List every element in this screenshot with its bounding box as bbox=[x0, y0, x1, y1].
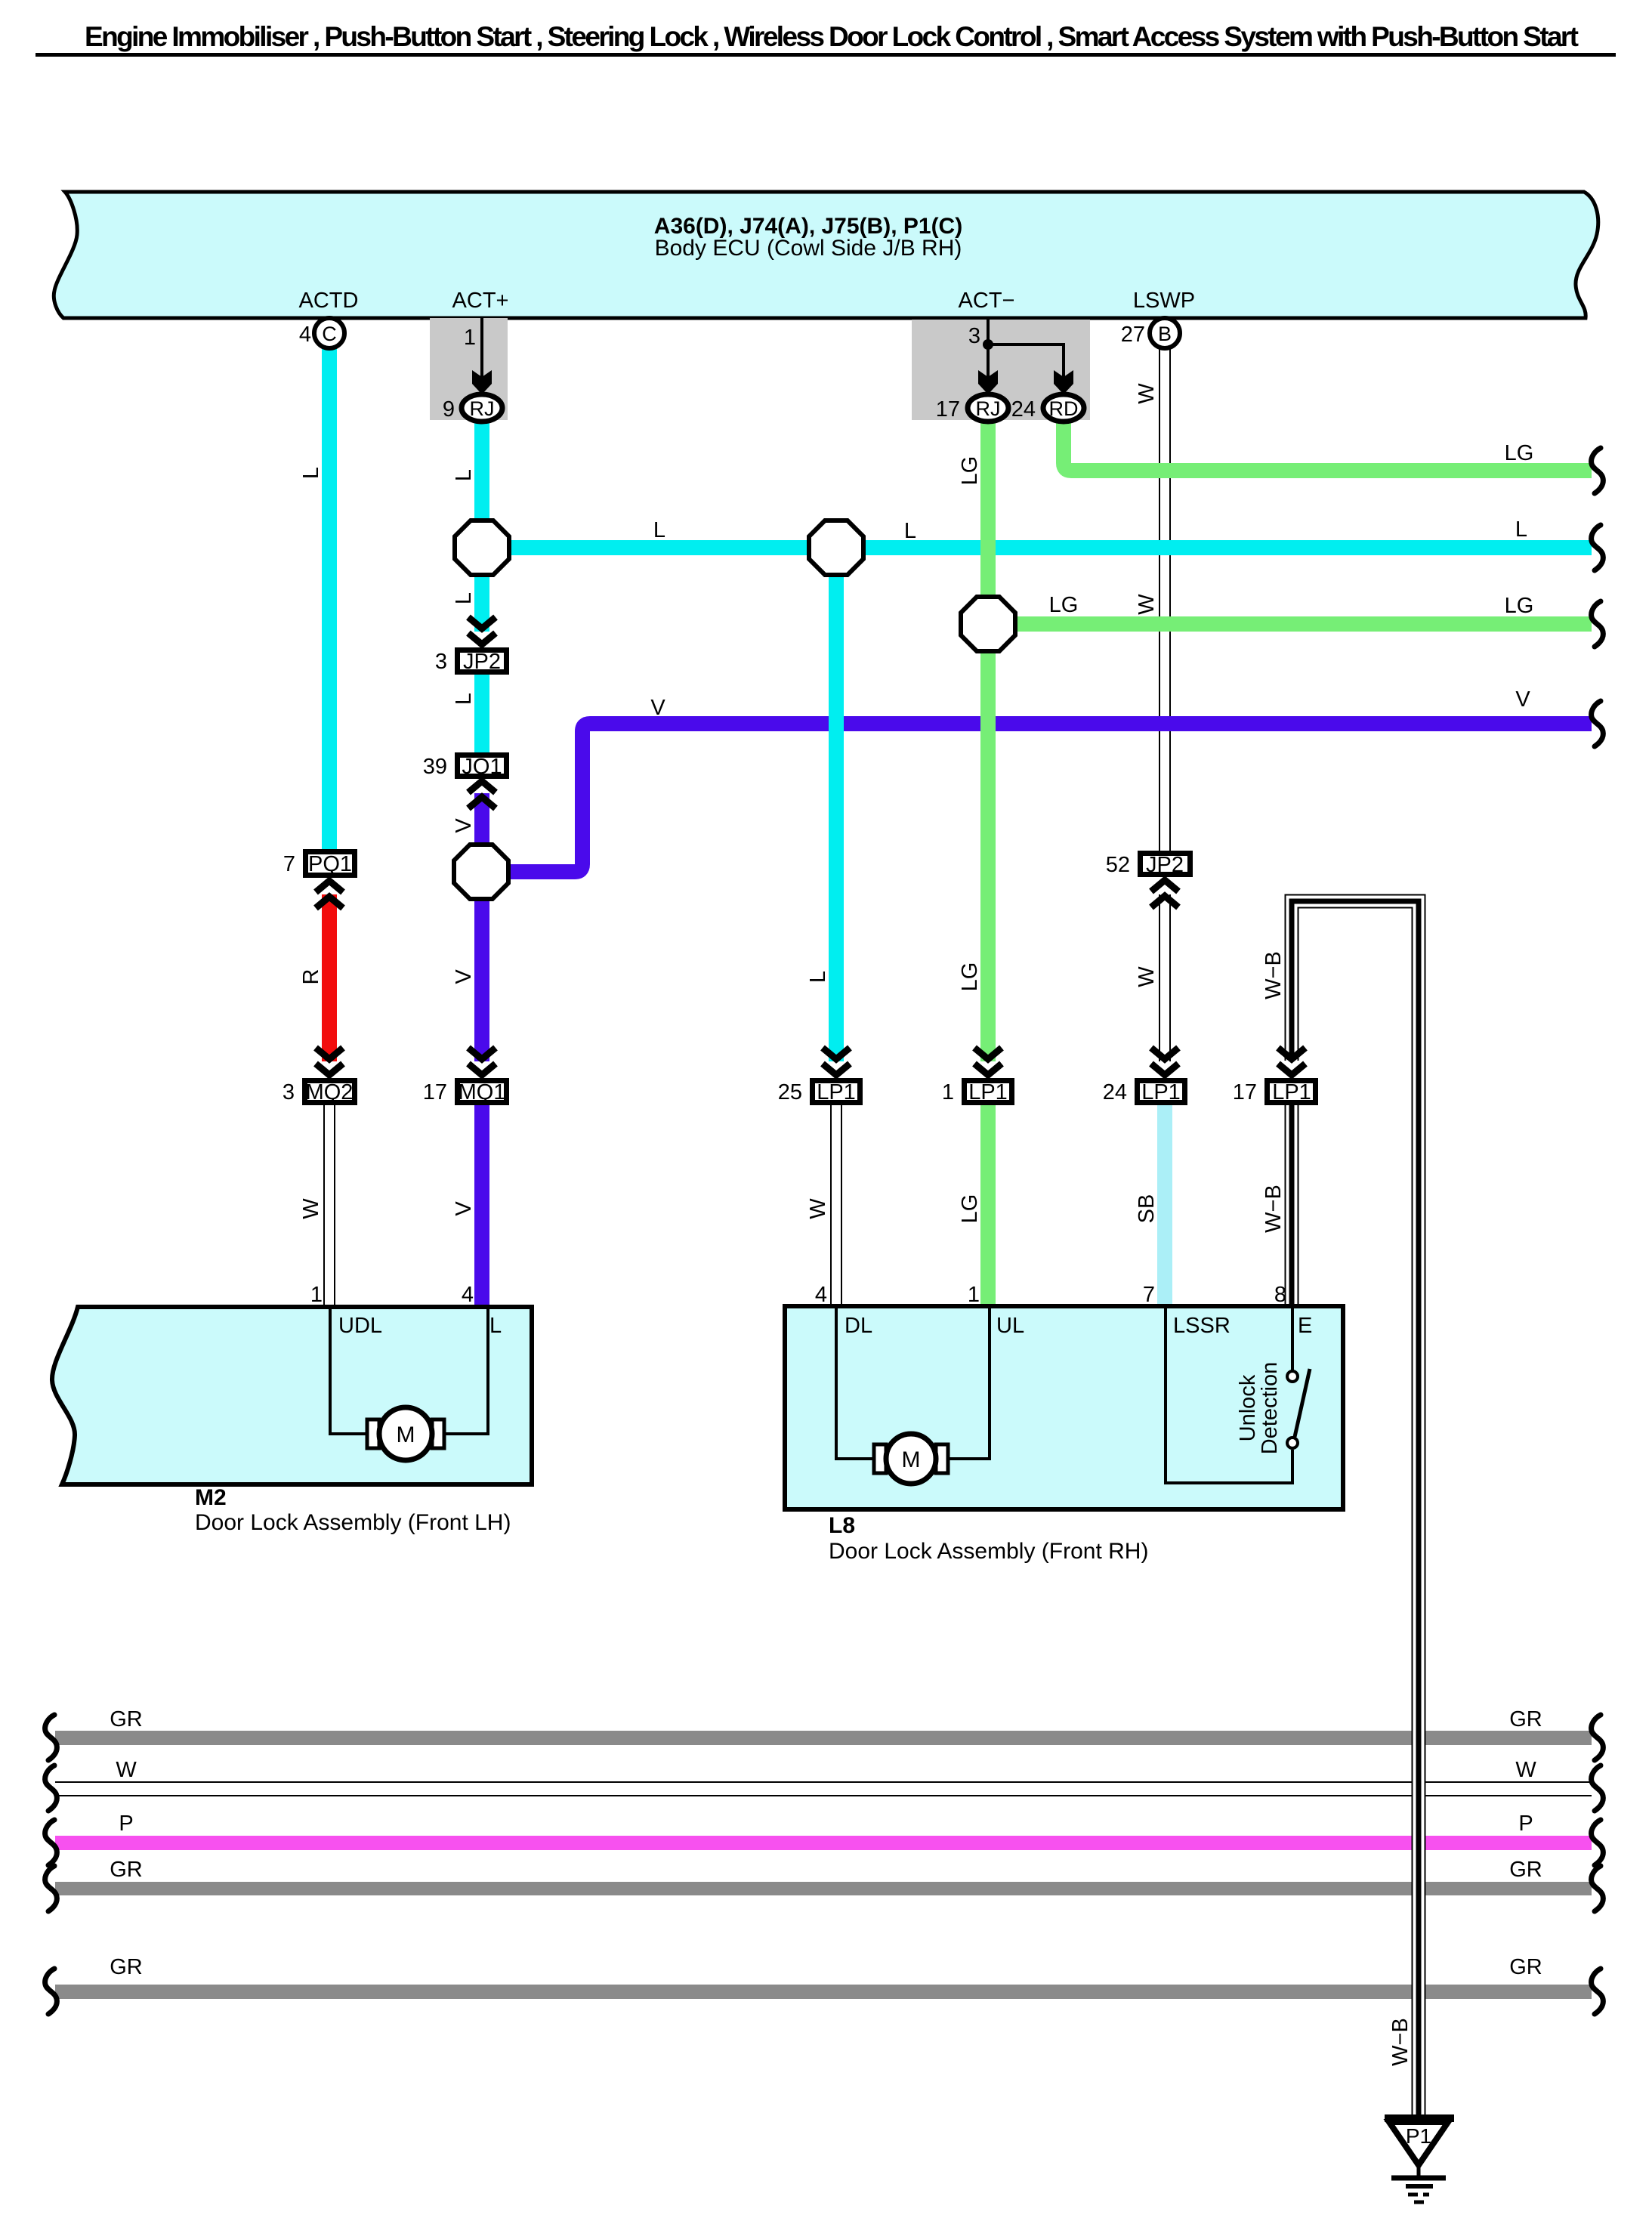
wire P horizontal bbox=[55, 1836, 1592, 1850]
svg-text:B: B bbox=[1158, 323, 1172, 345]
svg-text:W: W bbox=[116, 1758, 137, 1782]
wire break symbol right bbox=[1592, 601, 1604, 647]
svg-text:GR: GR bbox=[1509, 1707, 1542, 1731]
svg-text:ACT−: ACT− bbox=[959, 289, 1015, 313]
wire break symbol left bbox=[45, 1715, 57, 1760]
arrow chevrons into LP1 pin 25 bbox=[823, 1048, 850, 1075]
svg-text:4: 4 bbox=[462, 1283, 474, 1307]
pin 9 connector RJ oval (ACT+) bbox=[443, 394, 502, 422]
wire W (white) MQ2 to M2 pin 1 bbox=[323, 1105, 335, 1309]
svg-text:L: L bbox=[806, 971, 830, 983]
svg-text:9: 9 bbox=[443, 397, 455, 422]
pin 1 ACT+ lead and arrowhead into RJ bbox=[472, 318, 492, 394]
svg-text:1: 1 bbox=[310, 1283, 323, 1307]
svg-text:Door Lock Assembly (Front RH): Door Lock Assembly (Front RH) bbox=[829, 1539, 1148, 1564]
svg-text:UDL: UDL bbox=[338, 1314, 382, 1338]
svg-text:R: R bbox=[299, 969, 323, 985]
svg-text:3: 3 bbox=[283, 1080, 295, 1104]
svg-text:25: 25 bbox=[778, 1080, 802, 1104]
arrow chevrons into PQ1 pin 7 bbox=[316, 881, 343, 908]
ground P1 symbol bbox=[1385, 2118, 1454, 2202]
svg-text:4: 4 bbox=[299, 323, 311, 347]
pin 24 connector RD oval bbox=[1011, 394, 1084, 422]
svg-text:GR: GR bbox=[1509, 1858, 1542, 1882]
svg-text:MQ1: MQ1 bbox=[459, 1080, 506, 1104]
svg-text:W: W bbox=[1135, 383, 1159, 404]
wire break symbol right bbox=[1592, 1715, 1604, 1760]
wire break symbol right bbox=[1592, 701, 1604, 746]
node octagon O2 (L junction mid) bbox=[809, 520, 863, 575]
svg-text:W−B: W−B bbox=[1388, 2018, 1413, 2066]
svg-text:W: W bbox=[1135, 966, 1159, 987]
svg-text:L: L bbox=[452, 693, 476, 705]
svg-text:8: 8 bbox=[1274, 1283, 1286, 1307]
svg-text:E: E bbox=[1298, 1314, 1312, 1338]
wire L cyan octagon2 down to LP1 pin 25 bbox=[829, 575, 844, 1061]
arrow chevrons into LP1 pin 1 bbox=[974, 1048, 1002, 1075]
svg-text:52: 52 bbox=[1106, 853, 1130, 877]
svg-text:JQ1: JQ1 bbox=[462, 755, 502, 779]
svg-text:JP2: JP2 bbox=[463, 650, 501, 674]
svg-text:LSSR: LSSR bbox=[1173, 1314, 1231, 1338]
wire W (white) LSWP B to JP2 bbox=[1159, 347, 1171, 851]
svg-text:P: P bbox=[119, 1812, 133, 1836]
svg-text:Engine Immobiliser , Push-Butt: Engine Immobiliser , Push-Button Start ,… bbox=[85, 21, 1579, 52]
svg-text:W: W bbox=[806, 1198, 830, 1219]
svg-text:L: L bbox=[653, 518, 665, 542]
wire break symbol left bbox=[45, 1765, 57, 1811]
wire LG from RD elbow to right edge bbox=[1064, 420, 1592, 471]
svg-text:V: V bbox=[452, 969, 476, 984]
svg-text:27: 27 bbox=[1121, 323, 1145, 347]
wire W-B from LP1 17 up, across and down to ground P1 bbox=[1292, 901, 1419, 2121]
junction box PQ1 pin 7 bbox=[283, 852, 355, 877]
arrow chevrons into JQ1 pin 39 bbox=[468, 781, 496, 808]
wire W (white) JP2 52 to LP1 pin 24 bbox=[1159, 894, 1171, 1061]
arrow chevrons into JP2 pin 3 bbox=[468, 617, 496, 644]
svg-text:LG: LG bbox=[1505, 594, 1534, 618]
junction box LP1 pin 1 bbox=[942, 1080, 1012, 1104]
svg-text:L: L bbox=[489, 1314, 502, 1338]
svg-text:PQ1: PQ1 bbox=[308, 852, 352, 876]
wire L from ECU pin ACTD (cyan vertical) bbox=[322, 347, 337, 849]
svg-text:MQ2: MQ2 bbox=[306, 1080, 354, 1104]
node octagon O1 (L junction ACT+) bbox=[455, 520, 509, 575]
svg-text:LG: LG bbox=[1505, 441, 1534, 465]
svg-text:LSWP: LSWP bbox=[1133, 289, 1195, 313]
wire W-B LP1 17 down to L8 pin 8 bbox=[1285, 1105, 1299, 1308]
junction box LP1 pin 25 bbox=[778, 1080, 860, 1104]
pin 4 connector C circle bbox=[299, 318, 344, 348]
svg-text:7: 7 bbox=[1143, 1283, 1155, 1307]
svg-text:17: 17 bbox=[1233, 1080, 1257, 1104]
junction box MQ1 pin 17 bbox=[423, 1080, 507, 1104]
svg-text:L: L bbox=[299, 467, 323, 479]
svg-text:L8: L8 bbox=[829, 1513, 855, 1538]
svg-text:SB: SB bbox=[1135, 1194, 1159, 1224]
svg-text:1: 1 bbox=[942, 1080, 954, 1104]
svg-text:LG: LG bbox=[958, 456, 982, 486]
junction box JP2 pin 3 bbox=[435, 650, 507, 674]
wire W horizontal bbox=[55, 1781, 1592, 1796]
svg-text:C: C bbox=[322, 323, 337, 345]
gray connector block at ACT+ bbox=[430, 318, 508, 420]
wire GR horizontal 1 bbox=[55, 1731, 1592, 1745]
svg-text:W−B: W−B bbox=[1261, 1185, 1286, 1233]
wire break symbol right bbox=[1592, 1820, 1604, 1865]
junction box LP1 pin 24 bbox=[1103, 1080, 1185, 1104]
junction box LP1 pin 17 bbox=[1233, 1080, 1316, 1104]
M2 Door Lock Assembly (Front LH) box bbox=[52, 1307, 532, 1535]
node octagon O3 (V junction) bbox=[454, 845, 508, 899]
svg-text:P1: P1 bbox=[1406, 2124, 1431, 2148]
svg-text:W: W bbox=[1515, 1758, 1536, 1782]
wire break symbol right bbox=[1592, 1866, 1604, 1911]
svg-text:V: V bbox=[452, 1201, 476, 1216]
svg-text:L: L bbox=[452, 592, 476, 604]
wire L horizontal octagon to octagon to right edge bbox=[509, 540, 809, 555]
svg-text:LP1: LP1 bbox=[817, 1080, 856, 1104]
svg-text:W: W bbox=[299, 1198, 323, 1219]
svg-text:Body ECU (Cowl Side J/B RH): Body ECU (Cowl Side J/B RH) bbox=[655, 236, 962, 261]
wire L cyan ACT+ column RJ to octagon and JP2, JQ1 bbox=[474, 420, 489, 521]
wire V violet JQ1 to octagon bbox=[474, 793, 489, 845]
wire GR horizontal 2 bbox=[55, 1882, 1592, 1895]
wire R red between PQ1 and MQ2 bbox=[322, 894, 337, 1061]
svg-text:3: 3 bbox=[435, 650, 447, 674]
svg-text:4: 4 bbox=[815, 1283, 827, 1307]
svg-text:DL: DL bbox=[845, 1314, 872, 1338]
junction box MQ2 pin 3 bbox=[283, 1080, 355, 1104]
svg-text:LP1: LP1 bbox=[968, 1080, 1008, 1104]
svg-text:3: 3 bbox=[968, 324, 980, 348]
motor M inside L8 bbox=[836, 1308, 990, 1484]
svg-text:RJ: RJ bbox=[976, 397, 1001, 420]
junction box JQ1 pin 39 bbox=[423, 755, 507, 779]
wire break symbol right bbox=[1592, 1969, 1604, 2014]
svg-text:RJ: RJ bbox=[470, 397, 495, 420]
wire V violet elbow from octagon to horizontal run bbox=[508, 724, 1592, 872]
wire GR horizontal 3 bbox=[55, 1985, 1592, 1999]
svg-text:W−B: W−B bbox=[1261, 951, 1286, 999]
svg-text:7: 7 bbox=[283, 852, 295, 876]
arrow chevrons into MQ1 pin 17 bbox=[468, 1048, 496, 1075]
svg-text:V: V bbox=[452, 818, 476, 833]
svg-text:LG: LG bbox=[958, 962, 982, 992]
arrow chevrons into LP1 pin 17 bbox=[1278, 1048, 1305, 1075]
svg-text:24: 24 bbox=[1103, 1080, 1127, 1104]
wire V violet octagon to MQ1 bbox=[474, 899, 489, 1061]
pin 17 connector RJ oval (ACT-) bbox=[936, 394, 1008, 422]
arrow chevrons into LP1 pin 24 bbox=[1151, 1048, 1178, 1075]
svg-text:L: L bbox=[1515, 517, 1527, 542]
svg-text:17: 17 bbox=[423, 1080, 447, 1104]
wire V violet MQ1 to M2 pin 4 bbox=[474, 1105, 489, 1309]
motor M inside M2 bbox=[330, 1309, 488, 1460]
svg-text:P: P bbox=[1518, 1812, 1533, 1836]
wire LG LP1 pin1 to L8 pin 1 bbox=[980, 1105, 996, 1308]
svg-text:JP2: JP2 bbox=[1146, 853, 1184, 877]
svg-text:Unlock: Unlock bbox=[1236, 1374, 1260, 1441]
svg-text:V: V bbox=[650, 696, 665, 720]
svg-text:GR: GR bbox=[1509, 1955, 1542, 1979]
pin 27 connector B circle bbox=[1121, 318, 1180, 348]
node octagon O4 (LG junction) bbox=[961, 597, 1015, 651]
svg-text:L: L bbox=[904, 519, 916, 543]
arrow chevrons into JP2 pin 52 bbox=[1151, 880, 1178, 907]
svg-text:ACTD: ACTD bbox=[299, 289, 359, 313]
wire break symbol right bbox=[1592, 1765, 1604, 1811]
svg-text:GR: GR bbox=[110, 1707, 143, 1731]
svg-text:M2: M2 bbox=[195, 1485, 227, 1510]
svg-text:W: W bbox=[1135, 594, 1159, 615]
wire break symbol left bbox=[45, 1820, 57, 1865]
svg-text:M: M bbox=[902, 1447, 921, 1472]
svg-text:M: M bbox=[397, 1422, 415, 1447]
gray connector block at ACT- bbox=[912, 320, 1090, 420]
svg-text:V: V bbox=[1515, 687, 1530, 712]
pin 3 ACT- leads, junction dot, arrowheads into RJ and RD bbox=[978, 318, 1073, 394]
svg-text:1: 1 bbox=[464, 326, 476, 350]
svg-text:LG: LG bbox=[1049, 593, 1079, 617]
L8 Door Lock Assembly (Front RH) box bbox=[785, 1306, 1343, 1564]
junction box JP2 pin 52 bbox=[1106, 853, 1190, 877]
arrow chevrons into MQ2 pin 3 bbox=[316, 1048, 343, 1075]
wire break symbol left bbox=[45, 1866, 57, 1911]
ECU A36(D), J74(A), J75(B), P1(C) Body ECU box bbox=[54, 192, 1598, 318]
wire break symbol left bbox=[45, 1969, 57, 2014]
wire W (white) LP1 pin25 to L8 pin 4 bbox=[830, 1105, 842, 1308]
svg-text:LG: LG bbox=[958, 1194, 982, 1224]
unlock detection switch inside L8 bbox=[1166, 1308, 1310, 1483]
svg-text:1: 1 bbox=[968, 1283, 980, 1307]
title: Engine Immobiliser header bbox=[36, 21, 1616, 57]
svg-text:17: 17 bbox=[936, 397, 960, 422]
wire SB LP1 pin24 to L8 pin 7 bbox=[1157, 1105, 1172, 1308]
wire LG horizontal octagon4 to right edge bbox=[1015, 616, 1592, 632]
svg-text:Detection: Detection bbox=[1258, 1362, 1282, 1455]
svg-text:Door Lock Assembly (Front LH): Door Lock Assembly (Front LH) bbox=[195, 1510, 511, 1535]
svg-text:GR: GR bbox=[110, 1858, 143, 1882]
svg-text:L: L bbox=[452, 469, 476, 481]
svg-text:GR: GR bbox=[110, 1955, 143, 1979]
svg-text:RD: RD bbox=[1049, 397, 1079, 420]
svg-text:LP1: LP1 bbox=[1141, 1080, 1181, 1104]
svg-text:UL: UL bbox=[996, 1314, 1024, 1338]
wire LG vertical RJ to octagon4 and LP1 pin 1 bbox=[980, 420, 996, 598]
svg-text:LP1: LP1 bbox=[1272, 1080, 1311, 1104]
svg-text:ACT+: ACT+ bbox=[452, 289, 509, 313]
svg-text:24: 24 bbox=[1011, 397, 1036, 422]
wire break symbol right bbox=[1592, 525, 1604, 570]
wire break symbol right bbox=[1592, 448, 1604, 493]
svg-text:39: 39 bbox=[423, 755, 447, 779]
